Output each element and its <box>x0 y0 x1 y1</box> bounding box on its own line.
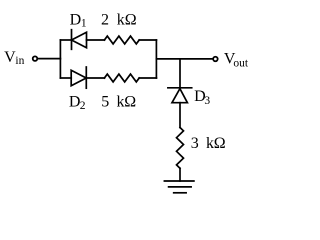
svg-text:2: 2 <box>80 100 86 112</box>
svg-text:k: k <box>117 94 125 111</box>
svg-text:V: V <box>4 49 16 66</box>
svg-text:in: in <box>15 55 24 67</box>
svg-text:2: 2 <box>101 12 109 29</box>
svg-text:Ω: Ω <box>214 135 226 152</box>
svg-text:3: 3 <box>191 135 199 152</box>
svg-text:3: 3 <box>204 95 210 107</box>
svg-text:out: out <box>233 57 249 69</box>
svg-text:Ω: Ω <box>124 94 136 111</box>
svg-text:D: D <box>70 12 82 29</box>
svg-text:1: 1 <box>81 18 87 30</box>
svg-text:Ω: Ω <box>125 12 137 29</box>
svg-text:5: 5 <box>101 94 109 111</box>
svg-text:D: D <box>69 94 81 111</box>
svg-text:k: k <box>117 12 125 29</box>
